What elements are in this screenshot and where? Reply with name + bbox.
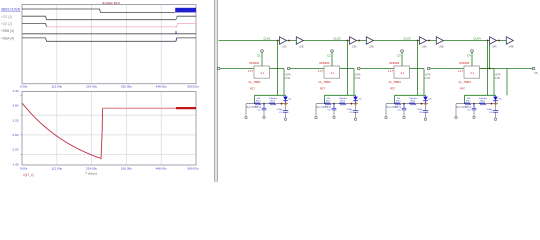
svg-text:R4.1: R4.1 xyxy=(466,101,471,103)
resistor R4.2 xyxy=(480,103,487,105)
node C4 top pin xyxy=(471,50,474,53)
timer U4 box xyxy=(464,66,480,78)
wire xyxy=(430,68,464,70)
wire xyxy=(493,69,495,96)
buffer U2B xyxy=(366,37,373,44)
svg-text:R2.2: R2.2 xyxy=(341,101,346,103)
ground xyxy=(385,116,387,118)
gridline xyxy=(23,114,196,116)
capacitor C2 xyxy=(333,104,335,108)
svg-text:1/2.0p: 1/2.0p xyxy=(255,107,262,109)
wire bottom rail xyxy=(246,103,288,105)
svg-text:-17%: -17% xyxy=(495,78,500,80)
svg-text:448.00u: 448.00u xyxy=(156,85,167,89)
svg-text:D1: D1 xyxy=(289,98,293,100)
svg-text:+17%: +17% xyxy=(495,75,501,77)
buffer U3A xyxy=(420,37,427,44)
wire xyxy=(254,95,256,103)
wire output net xyxy=(480,68,533,70)
svg-text:+SDA (4): +SDA (4) xyxy=(1,36,14,40)
trace row4 +SEB xyxy=(22,33,196,35)
svg-text:C1: C1 xyxy=(257,54,261,58)
capacitor C1 xyxy=(263,104,265,108)
svg-text:R17: R17 xyxy=(250,87,255,91)
ground xyxy=(315,116,317,118)
ground xyxy=(263,116,265,118)
svg-text:CL_TMR1: CL_TMR1 xyxy=(249,80,262,84)
svg-text:1/2.0p: 1/2.0p xyxy=(325,107,332,109)
svg-text:1.17: 1.17 xyxy=(318,70,323,73)
svg-text:+CE (2): +CE (2) xyxy=(1,22,12,26)
svg-text:1/2.0p: 1/2.0p xyxy=(465,107,472,109)
svg-text:D2: D2 xyxy=(359,98,363,100)
svg-text:112.00u: 112.00u xyxy=(51,85,62,89)
svg-text:1.40: 1.40 xyxy=(12,162,18,166)
buffer U4A xyxy=(490,37,497,44)
junction xyxy=(281,103,283,105)
svg-text:4.1: 4.1 xyxy=(261,72,265,75)
svg-text:R1.1: R1.1 xyxy=(256,101,261,103)
waveform viewer panel xyxy=(1,1,199,176)
wire xyxy=(394,95,396,103)
svg-text:+CS (3): +CS (3) xyxy=(1,15,12,19)
capacitor C4b xyxy=(495,104,497,111)
svg-text:RNOM1: RNOM1 xyxy=(250,61,260,65)
svg-text:C3: C3 xyxy=(419,112,423,114)
gridline xyxy=(160,92,162,165)
svg-text:dBUS.CLK(4): dBUS.CLK(4) xyxy=(1,8,20,12)
wire xyxy=(423,69,425,96)
buffer U3B xyxy=(436,37,443,44)
wire xyxy=(290,68,324,70)
wire xyxy=(506,69,508,96)
svg-text:U3B: U3B xyxy=(439,46,444,49)
svg-text:D4: D4 xyxy=(499,98,503,100)
svg-text:1.03p: 1.03p xyxy=(277,109,283,111)
digital plot frame xyxy=(22,5,196,84)
wire xyxy=(455,104,457,116)
svg-text:C4: C4 xyxy=(467,54,471,58)
gridline xyxy=(160,5,162,83)
wire bottom rail xyxy=(456,103,498,105)
svg-text:R37: R37 xyxy=(390,87,395,91)
wire xyxy=(395,94,426,96)
svg-text:R27: R27 xyxy=(320,87,325,91)
wire xyxy=(401,52,403,66)
svg-text:CL_TMR3: CL_TMR3 xyxy=(389,80,402,84)
svg-text:-17%: -17% xyxy=(355,78,360,80)
svg-text:1.17: 1.17 xyxy=(248,70,253,73)
analog trace v(47_c) decay xyxy=(22,103,103,159)
svg-text:224.00u: 224.00u xyxy=(86,167,97,171)
svg-text:U2A: U2A xyxy=(352,46,357,49)
ground xyxy=(284,118,286,120)
diode D3 xyxy=(423,97,428,101)
svg-text:U3A: U3A xyxy=(422,46,427,49)
svg-text:1.03p: 1.03p xyxy=(487,109,493,111)
node C5 output port xyxy=(532,67,535,70)
svg-text:4.40: 4.40 xyxy=(12,89,18,93)
svg-text:+SEB (4): +SEB (4) xyxy=(1,29,14,33)
wire bottom rail xyxy=(316,103,358,105)
node CLK4 input port xyxy=(427,67,430,70)
ground xyxy=(245,116,247,118)
svg-text:4.1: 4.1 xyxy=(331,72,335,75)
capacitor C4 xyxy=(473,104,475,108)
svg-text:C1: C1 xyxy=(279,112,283,114)
svg-text:1.03p: 1.03p xyxy=(417,109,423,111)
svg-text:C2: C2 xyxy=(328,109,332,111)
junction xyxy=(351,103,353,105)
analog trace flat segment xyxy=(103,107,176,109)
window splitter xyxy=(215,0,218,182)
junction xyxy=(489,68,491,70)
wire xyxy=(340,68,355,70)
wire xyxy=(255,94,286,96)
svg-text:1.03p: 1.03p xyxy=(347,109,353,111)
svg-text:+17%: +17% xyxy=(425,75,431,77)
wire xyxy=(245,104,247,116)
svg-text:1.17: 1.17 xyxy=(388,70,393,73)
ground xyxy=(333,116,335,118)
gridline xyxy=(23,154,196,156)
wire xyxy=(331,52,333,66)
diode D2 xyxy=(353,97,358,101)
svg-text:+17%: +17% xyxy=(285,75,291,77)
svg-text:CLK4: CLK4 xyxy=(473,36,481,40)
svg-text:224.00u: 224.00u xyxy=(86,85,97,89)
wire xyxy=(324,95,326,103)
svg-text:RNOM4: RNOM4 xyxy=(460,61,470,65)
node CLK2 input port xyxy=(287,67,290,70)
svg-text:R1.2: R1.2 xyxy=(271,101,276,103)
trace row3 +CE xyxy=(22,23,47,27)
svg-text:0.00s: 0.00s xyxy=(20,167,28,171)
svg-text:-17%: -17% xyxy=(285,78,290,80)
svg-text:4.1: 4.1 xyxy=(401,72,405,75)
resistor R1.2 xyxy=(270,103,277,105)
svg-text:R3.2: R3.2 xyxy=(411,101,416,103)
svg-text:C2: C2 xyxy=(349,112,353,114)
svg-text:C2: C2 xyxy=(327,54,331,58)
capacitor C3b xyxy=(425,104,427,111)
svg-text:112.00u: 112.00u xyxy=(51,167,62,171)
svg-text:1/2.0p: 1/2.0p xyxy=(395,107,402,109)
svg-text:560.00u: 560.00u xyxy=(187,85,198,89)
ground xyxy=(494,118,496,120)
wire xyxy=(347,41,349,96)
svg-text:C5: C5 xyxy=(534,71,538,75)
node junction orange xyxy=(284,103,286,105)
svg-text:R47: R47 xyxy=(460,87,465,91)
svg-text:D3: D3 xyxy=(429,98,433,100)
junction on CLK bus xyxy=(487,40,489,42)
wire xyxy=(489,45,491,69)
node C3 top pin xyxy=(401,50,404,53)
svg-text:C1: C1 xyxy=(258,109,262,111)
timer U1 box xyxy=(254,66,270,78)
svg-text:336.00u: 336.00u xyxy=(121,85,132,89)
junction xyxy=(473,103,475,105)
resistor R2.1 xyxy=(325,103,332,105)
resistor R1.1 xyxy=(255,103,262,105)
wire xyxy=(261,52,263,66)
svg-text:-17%: -17% xyxy=(425,78,430,80)
gridline xyxy=(125,5,127,83)
svg-text:R3.1: R3.1 xyxy=(396,101,401,103)
node junction orange xyxy=(354,103,356,105)
trace row5 rising edge xyxy=(175,38,178,41)
junction xyxy=(421,103,423,105)
diode D4 xyxy=(493,97,498,101)
svg-text:CLK3: CLK3 xyxy=(403,36,411,40)
svg-text:U1A: U1A xyxy=(282,46,287,49)
junction xyxy=(491,103,493,105)
svg-text:336.00u: 336.00u xyxy=(121,167,132,171)
svg-text:1.17: 1.17 xyxy=(458,70,463,73)
timer U3 box xyxy=(394,66,410,78)
wire xyxy=(353,69,355,96)
svg-text:448.00u: 448.00u xyxy=(156,167,167,171)
axis ticks xyxy=(21,95,22,97)
buffer U2A xyxy=(350,37,357,44)
trace row3 analog pink segment xyxy=(47,23,196,27)
svg-text:U4B: U4B xyxy=(509,46,514,49)
junction on CLK bus xyxy=(417,40,419,42)
node junction orange xyxy=(424,103,426,105)
gridline xyxy=(91,5,93,83)
wire xyxy=(465,94,496,96)
diode D1 xyxy=(283,97,288,101)
wire xyxy=(220,68,254,70)
gridline xyxy=(56,5,58,83)
trace row2 rising edge xyxy=(176,16,177,20)
svg-text:U1B: U1B xyxy=(299,46,304,49)
node CLK3 input port xyxy=(357,67,360,70)
wire xyxy=(471,52,473,66)
wire xyxy=(277,41,279,96)
analog plot frame xyxy=(22,92,196,166)
svg-text:0.00s: 0.00s xyxy=(20,85,28,89)
svg-text:C4: C4 xyxy=(489,112,493,114)
wire xyxy=(270,68,285,70)
ground xyxy=(473,116,475,118)
svg-text:U2B: U2B xyxy=(369,46,374,49)
wire xyxy=(385,104,387,116)
buffer U1A xyxy=(280,37,287,44)
wire bottom rail xyxy=(386,103,428,105)
svg-text:R4.2: R4.2 xyxy=(481,101,486,103)
node C2 top pin xyxy=(331,50,334,53)
trace row1 d0.BUS.CLK xyxy=(22,9,175,13)
junction xyxy=(263,103,265,105)
junction on CLK bus xyxy=(347,40,349,42)
analog trace thick segment xyxy=(176,107,196,109)
wire xyxy=(283,69,285,96)
wire xyxy=(325,94,356,96)
junction xyxy=(403,103,405,105)
clock bus wire xyxy=(219,40,514,42)
svg-text:3.20: 3.20 xyxy=(12,118,18,122)
trace row5 +SDA xyxy=(22,38,176,41)
svg-text:U4A: U4A xyxy=(492,46,497,49)
buffer U4B xyxy=(506,37,513,44)
svg-text:CLK1: CLK1 xyxy=(263,36,271,40)
resistor R4.1 xyxy=(465,103,472,105)
capacitor C1b xyxy=(285,104,287,111)
resistor R3.2 xyxy=(410,103,417,105)
resistor R2.2 xyxy=(340,103,347,105)
svg-text:CLK2: CLK2 xyxy=(333,36,341,40)
svg-text:RNOM2: RNOM2 xyxy=(320,61,330,65)
junction on CLK bus xyxy=(277,40,279,42)
svg-text:v(47_c): v(47_c) xyxy=(23,173,34,177)
svg-text:T (Secs): T (Secs) xyxy=(85,172,97,176)
gridline xyxy=(91,92,93,165)
svg-text:CL_TMR2: CL_TMR2 xyxy=(319,80,332,84)
buffer U1B xyxy=(296,37,303,44)
wire xyxy=(417,41,419,96)
wire xyxy=(464,95,466,103)
node CLK1 input port xyxy=(217,67,220,70)
resistor R3.1 xyxy=(395,103,402,105)
svg-text:560.00u: 560.00u xyxy=(187,167,198,171)
trace row4 event tick xyxy=(175,31,177,34)
wire xyxy=(480,68,495,70)
gridline xyxy=(23,134,196,136)
svg-text:3.80: 3.80 xyxy=(12,104,18,108)
wire xyxy=(315,104,317,116)
svg-text:C3: C3 xyxy=(398,109,402,111)
svg-text:R2.1: R2.1 xyxy=(326,101,331,103)
svg-text:RNOM3: RNOM3 xyxy=(390,61,400,65)
gridline xyxy=(56,92,58,165)
node C1 top pin xyxy=(261,50,264,53)
gridline xyxy=(125,92,127,165)
svg-text:CL_TMR4: CL_TMR4 xyxy=(459,80,472,84)
timer U2 box xyxy=(324,66,340,78)
ground xyxy=(424,118,426,120)
svg-text:C4: C4 xyxy=(468,109,472,111)
capacitor C3 xyxy=(403,104,405,108)
ground xyxy=(403,116,405,118)
svg-text:2.60: 2.60 xyxy=(12,133,18,137)
capacitor C2b xyxy=(355,104,357,111)
svg-text:4.1: 4.1 xyxy=(471,72,475,75)
junction xyxy=(333,103,335,105)
svg-text:C3: C3 xyxy=(397,54,401,58)
node junction orange xyxy=(494,103,496,105)
svg-text:2.00: 2.00 xyxy=(12,148,18,152)
ground xyxy=(354,118,356,120)
trace row2 +CS xyxy=(22,16,176,20)
wire xyxy=(487,41,489,96)
wire xyxy=(410,68,425,70)
ground xyxy=(455,116,457,118)
svg-text:+17%: +17% xyxy=(355,75,361,77)
bus value bar row1 xyxy=(175,8,196,13)
wire xyxy=(360,68,394,70)
